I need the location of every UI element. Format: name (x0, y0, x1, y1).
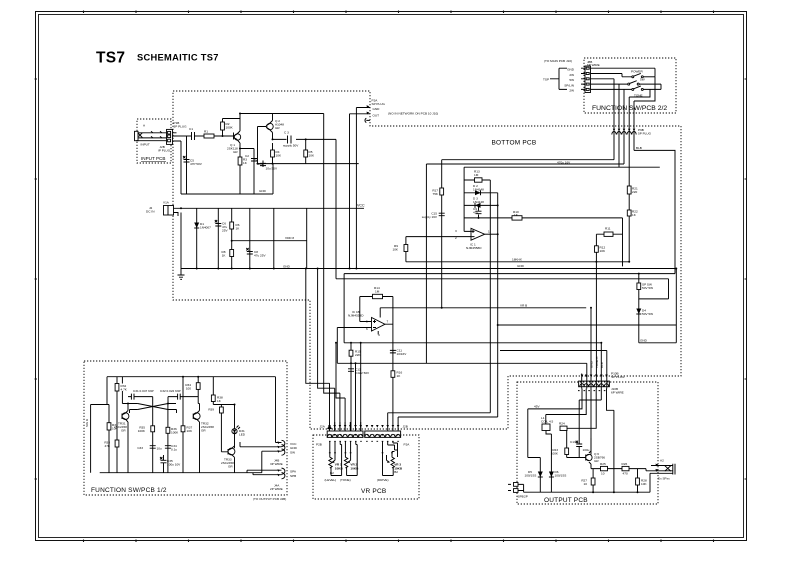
svg-text:OUT: OUT (373, 113, 380, 117)
svg-text:100/1SS: 100/1SS (525, 474, 537, 478)
svg-text:C1: C1 (189, 127, 193, 131)
right connector J4A (247, 468, 297, 491)
svg-text:FUNCTION SW/PCB 1/2: FUNCTION SW/PCB 1/2 (91, 487, 167, 494)
svg-text:POWER: POWER (631, 70, 643, 74)
wire w1 (581, 374, 583, 389)
DC jack J2 (146, 201, 181, 217)
svg-text:GR: GR (594, 459, 599, 463)
resistor R11 (604, 227, 613, 237)
svg-text:C33: C33 (137, 446, 143, 450)
Q4 collector resistor R34 (185, 377, 200, 404)
svg-text:GND: GND (567, 68, 575, 72)
svg-text:P2B: P2B (316, 443, 322, 447)
op-amp IC1 (455, 228, 498, 250)
column R38 to LED (211, 377, 234, 429)
J10 wire drops (350, 108, 357, 269)
svg-text:100K: 100K (171, 431, 179, 435)
svg-text:VR B: VR B (520, 303, 527, 307)
long line 273 (344, 274, 675, 343)
svg-text:SPA: SPA (290, 470, 297, 474)
frame ticks left (35, 79, 38, 479)
transistor Q3 (114, 404, 129, 473)
svg-text:P2A: P2A (404, 443, 411, 447)
resistor R32 column with lower R33 (104, 377, 127, 473)
capacitor C2 electrolytic (245, 154, 263, 166)
GND bus power row (181, 268, 676, 270)
svg-text:C 3: C 3 (284, 131, 289, 135)
svg-text:3P PLUG: 3P PLUG (174, 125, 188, 129)
right chain component SP SW (637, 274, 669, 299)
diode D5 (525, 458, 543, 493)
svg-text:50V 5W: 50V 5W (642, 312, 653, 316)
svg-text:47P 50V: 47P 50V (190, 162, 203, 166)
stair wire 2 (318, 269, 335, 432)
svg-text:GND: GND (290, 446, 298, 450)
svg-text:(TONE): (TONE) (340, 478, 351, 482)
svg-text:BOTTOM PCB: BOTTOM PCB (492, 140, 537, 147)
svg-text:R26: R26 (622, 462, 628, 466)
svg-text:100K: 100K (551, 452, 559, 456)
svg-text:GR: GR (201, 429, 206, 433)
svg-text:(NO IN NETWORK ON PCB 10 J10): (NO IN NETWORK ON PCB 10 J10) (388, 112, 438, 116)
wire w3 (590, 308, 592, 389)
svg-text:10K: 10K (641, 482, 647, 486)
svg-text:INPUT: INPUT (141, 143, 150, 147)
switch SW3 (591, 79, 662, 98)
svg-text:1N4148: 1N4148 (473, 200, 484, 204)
cross coupling caps C32 (160, 389, 198, 404)
connector J2A (320, 422, 364, 441)
svg-text:100K: 100K (226, 126, 234, 130)
LED D31 (232, 426, 246, 437)
svg-text:3: 3 (455, 229, 457, 233)
svg-text:45V: 45V (534, 405, 540, 409)
svg-text:Ex SPxx: Ex SPxx (658, 477, 670, 481)
svg-text:VCC: VCC (357, 204, 365, 208)
transistor Q6 (586, 438, 606, 469)
feedback resistor R14 (360, 286, 393, 299)
op2 output (385, 297, 393, 432)
svg-text:GR: GR (275, 126, 280, 130)
transistor Q1 (227, 131, 241, 154)
resistor R1 (204, 130, 214, 139)
pot VR2 TONE (340, 441, 359, 482)
svg-text:supply 16V: supply 16V (422, 215, 438, 219)
feedback line (464, 218, 622, 267)
transistor Q2 (266, 119, 284, 133)
ground symbol (178, 213, 185, 280)
wire v4 (567, 389, 597, 458)
svg-text:VR PCB: VR PCB (361, 488, 386, 495)
svg-text:(TO MAIN PCB J10): (TO MAIN PCB J10) (544, 59, 572, 63)
drop 489 (489, 180, 491, 413)
resistor R23 (551, 448, 569, 456)
svg-text:supply 50V: supply 50V (283, 144, 299, 148)
svg-text:47u: 47u (473, 211, 478, 215)
svg-text:100: 100 (186, 387, 191, 391)
wire P1 pin3 to gnd rail (177, 141, 182, 194)
vertical 426 (425, 164, 427, 363)
wire v3 to Q6 collector (590, 389, 592, 455)
right riser to J2B pin4 (388, 413, 491, 431)
connector P10 (579, 372, 625, 395)
Q1 source resistor R3 (238, 143, 248, 194)
FUNCTION SW PCB 2/2 dashed box (584, 58, 676, 113)
diode D2 (464, 184, 498, 195)
svg-text:1N4148: 1N4148 (473, 188, 484, 192)
dropper D1 (194, 208, 211, 268)
inner loop 234 (596, 234, 622, 262)
svg-text:10K: 10K (392, 248, 398, 252)
svg-text:47K: 47K (104, 444, 110, 448)
svg-text:R11: R11 (605, 227, 611, 231)
svg-text:SP PLUG: SP PLUG (372, 102, 386, 106)
svg-text:B2: B2 (330, 471, 334, 475)
diode D3 on rung3 (464, 197, 498, 208)
svg-text:0.1u: 0.1u (171, 448, 177, 452)
svg-text:J2A: J2A (320, 425, 326, 429)
pin7 riser (360, 343, 362, 431)
resistor R39 (208, 405, 223, 416)
svg-text:470: 470 (623, 472, 628, 476)
svg-text:COIL 4.5: COIL 4.5 (541, 420, 554, 424)
wire v6 long vertical (607, 389, 614, 493)
svg-text:GR: GR (121, 429, 126, 433)
svg-text:5W: 5W (569, 78, 574, 82)
svg-text:10/16V: 10/16V (397, 352, 408, 356)
frame ticks right (745, 79, 748, 479)
input jack J1 (135, 124, 167, 147)
right chain diode D4 (636, 299, 653, 343)
top rail left drop (106, 377, 108, 405)
svg-text:10K: 10K (309, 154, 315, 158)
cap C15 on drop (422, 212, 445, 220)
svg-text:C32 0.022 63P: C32 0.022 63P (160, 389, 181, 393)
long line 278 (336, 278, 669, 280)
wire P1 to C1 (177, 135, 192, 137)
diode D6 (549, 470, 566, 478)
GND rail input stage (181, 164, 273, 194)
svg-text:47u 25V: 47u 25V (254, 254, 266, 258)
resistor R25 (600, 462, 608, 476)
collector rail with C3 (273, 138, 337, 140)
vertical from VDD rail down (306, 208, 308, 268)
svg-text:J2B: J2B (403, 425, 408, 429)
resistor R17 on drop (432, 188, 443, 196)
svg-text:18KHX: 18KHX (512, 257, 522, 261)
svg-text:SPB: SPB (290, 474, 296, 478)
lower bias rail (258, 163, 359, 165)
capacitor C1 (189, 127, 195, 140)
frame ticks top (84, 11, 714, 14)
bundle from FUNCTION SW 2/2 (614, 113, 634, 261)
resistor R2 gate pulldown (221, 119, 234, 137)
column R35/C33 (137, 404, 162, 473)
cross X wires (128, 404, 177, 414)
svg-text:BLB: BLB (636, 146, 642, 150)
svg-text:50V 5W: 50V 5W (642, 286, 653, 290)
svg-text:SW R: SW R (85, 418, 89, 427)
svg-text:GND: GND (373, 107, 381, 111)
bundle connector pins P9 (612, 128, 652, 136)
VR PCB dashed box (313, 435, 419, 499)
svg-text:TS7: TS7 (96, 50, 125, 67)
wire w2 (586, 363, 588, 388)
resistor R10 on feedback (512, 210, 522, 220)
svg-text:100/1SS: 100/1SS (555, 474, 567, 478)
Q3 collector to top rail via R (122, 377, 128, 404)
svg-text:LED: LED (239, 433, 246, 437)
svg-text:GND: GND (283, 265, 291, 269)
svg-text:10: 10 (601, 472, 605, 476)
pot VR3 DRIVE (377, 441, 403, 482)
svg-text:VCC: VCC (290, 442, 297, 446)
column R37 (181, 377, 193, 473)
top rail corner down (323, 114, 325, 140)
frame ticks bottom (84, 540, 714, 543)
svg-text:1M: 1M (474, 173, 479, 177)
wire drop 441 (441, 160, 443, 308)
svg-text:R1: R1 (204, 130, 208, 134)
pin6 riser (355, 363, 357, 431)
source node to C2 (240, 149, 254, 195)
svg-text:10K: 10K (600, 249, 606, 253)
capacitor C3 electrolytic (283, 131, 299, 148)
connector J8 (564, 60, 599, 93)
svg-text:75K: 75K (432, 192, 438, 196)
switch SW2 (591, 78, 662, 90)
svg-text:5: 5 (366, 320, 368, 324)
svg-text:B2: B2 (394, 470, 398, 474)
line 325 (498, 324, 677, 326)
resistor R22 on bundle (627, 210, 638, 218)
wire w6 (500, 351, 607, 389)
svg-text:VDD 8: VDD 8 (285, 236, 294, 240)
wire C1 to R1 (195, 135, 205, 137)
cap C13 (570, 389, 601, 458)
right connector J4B (240, 377, 298, 473)
svg-text:6P WIRE: 6P WIRE (587, 63, 600, 67)
wire line 168 (464, 166, 660, 168)
svg-text:NJM4558D: NJM4558D (348, 314, 364, 318)
INPUT PCB dashed box (137, 119, 171, 163)
coil L1 (541, 416, 554, 431)
right riser to J2B pin7 (398, 417, 498, 431)
BLB wire (634, 150, 675, 273)
Q2 emitter to rail (272, 114, 274, 121)
bundle risers inside box (613, 79, 615, 114)
svg-text:100u: 100u (583, 448, 590, 452)
wire 470u line (442, 159, 614, 161)
svg-text:SP PLUG: SP PLUG (611, 375, 625, 379)
electrolytic C35 (160, 455, 181, 473)
svg-text:TONE B: TONE B (595, 357, 599, 368)
svg-text:R25: R25 (600, 462, 606, 466)
svg-text:100K: 100K (138, 429, 146, 433)
svg-text:25V: 25V (222, 229, 228, 233)
wire R2 top to Q1 drain rail (223, 118, 241, 120)
op-amp1 minus input wire (406, 236, 460, 238)
pot VR1 LEVEL (325, 441, 344, 482)
svg-text:GR: GR (228, 465, 233, 469)
svg-text:BLB: BLB (600, 362, 604, 368)
column R36/C34 (165, 404, 179, 473)
Q2 base wire (258, 127, 267, 164)
capacitor C5 shunt (183, 136, 203, 194)
wire w5 (600, 343, 602, 389)
stair wire 3 (324, 139, 340, 431)
left bus (91, 405, 109, 473)
svg-text:6P WIRE: 6P WIRE (611, 391, 624, 395)
connector P1 3P (158, 121, 187, 153)
svg-text:SCHEMAITIC TS7: SCHEMAITIC TS7 (137, 53, 219, 63)
connector J2B (365, 425, 408, 442)
op2 minus input (337, 328, 371, 364)
transistor Q4 (193, 404, 214, 473)
svg-text:1M: 1M (375, 290, 380, 294)
Q1 drain to top rail (240, 114, 324, 132)
resistor R16 (391, 371, 402, 379)
capacitor C4 electrolytic (254, 158, 278, 171)
svg-text:10KB: 10KB (350, 466, 359, 470)
Q6 base wire (567, 457, 586, 459)
resistor R24 top (559, 422, 567, 431)
resistor R26 (622, 462, 630, 476)
svg-text:C31 0.047 63P: C31 0.047 63P (133, 389, 154, 393)
svg-text:GND: GND (259, 189, 267, 193)
wire R1 to Q1 base (214, 133, 234, 140)
svg-text:SP/LIN: SP/LIN (564, 83, 574, 87)
svg-text:2P: 2P (524, 495, 528, 499)
svg-text:V1A: V1A (163, 201, 170, 205)
svg-text:SW: SW (290, 451, 295, 455)
dropper R6 (230, 208, 240, 268)
resistor R28 drop (636, 469, 648, 493)
cap C11 (390, 349, 407, 357)
long line 18K (406, 261, 629, 263)
bottom rail output (524, 473, 673, 492)
output jack J11 (646, 459, 675, 481)
wire v1 to left chain (528, 389, 582, 458)
pin stubs below P10 (578, 390, 605, 392)
resistor R31 column (107, 405, 118, 473)
svg-text:GND: GND (517, 264, 525, 268)
svg-text:GR: GR (233, 150, 238, 154)
cross coupling caps C31 (128, 389, 154, 404)
resistor R12 (595, 246, 606, 254)
svg-text:C2: C2 (245, 154, 249, 158)
bottom rail func12 (100, 472, 262, 474)
mid rail (591, 468, 646, 470)
resistor R5 (304, 139, 315, 163)
coil to diode D6 (546, 431, 551, 493)
op-amp IC1B (348, 310, 389, 337)
svg-text:A2: A2 (660, 459, 664, 463)
svg-text:GND: GND (640, 338, 648, 342)
connector J10 (350, 99, 386, 123)
transistor Q5 (221, 434, 235, 473)
svg-text:NJM4558D: NJM4558D (466, 246, 482, 250)
svg-text:OUTPUT PCB: OUTPUT PCB (544, 497, 588, 504)
TSP bracket (543, 68, 567, 89)
svg-text:10K: 10K (276, 154, 282, 158)
svg-text:FUNCTION SW/PCB 2/2: FUNCTION SW/PCB 2/2 (592, 105, 667, 112)
svg-text:TSP: TSP (543, 78, 549, 82)
svg-text:INPUT PCB: INPUT PCB (141, 156, 165, 161)
VDD mid rail (232, 240, 307, 242)
svg-text:(DRIVE): (DRIVE) (377, 478, 389, 482)
dropper R8 second row (222, 250, 234, 258)
resistor R4 (271, 143, 282, 164)
left connector SPB (508, 483, 528, 499)
dropper C8 (246, 208, 266, 268)
switch SW1 POWER (591, 68, 656, 78)
GND line low right (344, 269, 676, 343)
op2 output line right (380, 308, 586, 318)
OUTPUT PCB dashed box (517, 382, 658, 504)
resistor R21 on bundle (627, 186, 638, 194)
svg-text:220: 220 (632, 190, 637, 194)
svg-text:SPB: SPB (518, 495, 524, 499)
svg-text:10KB: 10KB (335, 466, 344, 470)
dropper C5 (215, 208, 229, 268)
svg-text:R39: R39 (208, 408, 214, 412)
svg-text:2P WIRE: 2P WIRE (270, 487, 283, 491)
VCC rail (181, 207, 364, 209)
feedback left leg (360, 297, 372, 322)
svg-text:10: 10 (584, 482, 588, 486)
resistor R27 drop (581, 469, 595, 493)
svg-text:7: 7 (387, 320, 389, 324)
long line 363 (337, 362, 587, 364)
svg-text:5P PLUG: 5P PLUG (638, 132, 652, 136)
svg-text:1: 1 (488, 230, 490, 234)
BOTTOM PCB dashed outline (173, 91, 681, 429)
vertical 405 with R9 (392, 237, 407, 262)
svg-text:100u 10V: 100u 10V (167, 463, 181, 467)
rung1 resistor R13 (464, 170, 490, 183)
cap C9 (473, 205, 482, 218)
svg-text:2W: 2W (569, 89, 574, 93)
wire w4 (595, 262, 597, 389)
stair wire 4 (336, 139, 345, 431)
stair wire 1 (306, 269, 330, 432)
Q5 base wire (221, 415, 228, 452)
wire v2 to coil (546, 389, 586, 425)
op1 output drop (497, 193, 499, 417)
FUNCTION SW PCB 1/2 dashed box (84, 361, 287, 495)
svg-text:0.022 50V: 0.022 50V (355, 371, 370, 375)
svg-text:DC IN: DC IN (146, 210, 154, 214)
svg-text:GND: GND (590, 360, 594, 368)
svg-text:10K: 10K (187, 429, 193, 433)
svg-text:C4: C4 (254, 158, 258, 162)
wire drop 464 (463, 167, 465, 231)
branch R15 / C12 (348, 343, 370, 431)
plain dropper (273, 208, 275, 268)
svg-text:(LEVEL): (LEVEL) (325, 478, 337, 482)
svg-text:4.7K: 4.7K (121, 388, 128, 392)
svg-text:2W: 2W (569, 73, 574, 77)
svg-text:10u 50V: 10u 50V (266, 167, 278, 171)
svg-text:1N4007: 1N4007 (200, 226, 211, 230)
svg-text:IP PLUG: IP PLUG (158, 149, 171, 153)
rail 164 (426, 163, 624, 165)
svg-text:3P WIRE: 3P WIRE (270, 462, 283, 466)
Q2 collector down (272, 133, 274, 140)
svg-text:C13: C13 (570, 440, 576, 444)
svg-text:5W: 5W (640, 78, 645, 82)
